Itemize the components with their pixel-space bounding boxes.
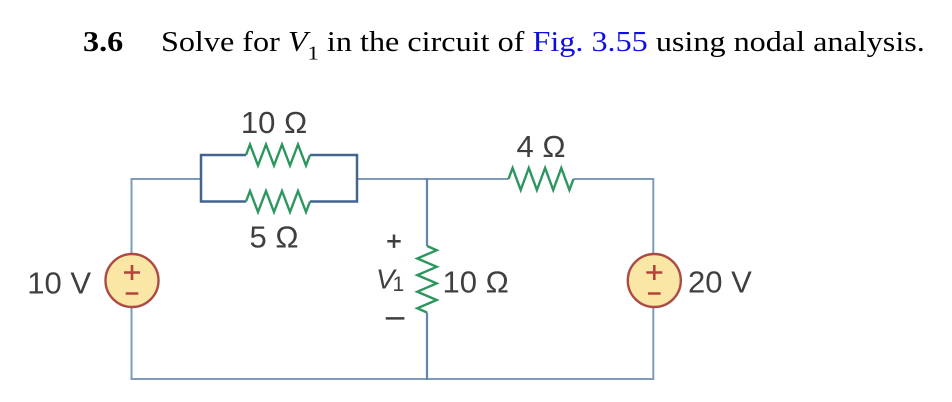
resistor R 10ohm (top of parallel block) [246, 145, 310, 166]
svg-text:3.6: 3.6 [83, 25, 123, 57]
svg-text:5 Ω: 5 Ω [249, 220, 298, 255]
resistor 4ohm (top rail) [509, 168, 574, 190]
parallel block frame [201, 155, 357, 202]
svg-text:10 Ω: 10 Ω [241, 105, 307, 140]
wire: outer loop (left branch, bottom rail, right branch, top-right segment) [132, 179, 654, 379]
wire: middle vertical node branch (upper lead) [426, 178, 428, 246]
wire: middle vertical node branch (lower lead) [426, 313, 428, 381]
svg-text:Solve for V1 in the circuit of: Solve for V1 in the circuit of Fig. 3.55… [161, 25, 925, 64]
resistor 10ohm (middle vertical) [417, 246, 436, 313]
resistor R 5ohm (bottom of parallel block) [246, 191, 310, 212]
voltage source 10V (left) [106, 254, 159, 307]
wire: top rail from block to 4-ohm resistor [357, 178, 509, 180]
voltage source 20V (right) [628, 254, 681, 307]
svg-text:4 Ω: 4 Ω [516, 129, 565, 164]
svg-text:10 V: 10 V [27, 266, 91, 301]
svg-text:10 Ω: 10 Ω [443, 265, 509, 300]
label minus (V1 polarity) [386, 317, 405, 320]
svg-text:1: 1 [393, 273, 405, 296]
label plus (V1 polarity) [387, 235, 400, 248]
svg-text:20 V: 20 V [688, 265, 752, 300]
